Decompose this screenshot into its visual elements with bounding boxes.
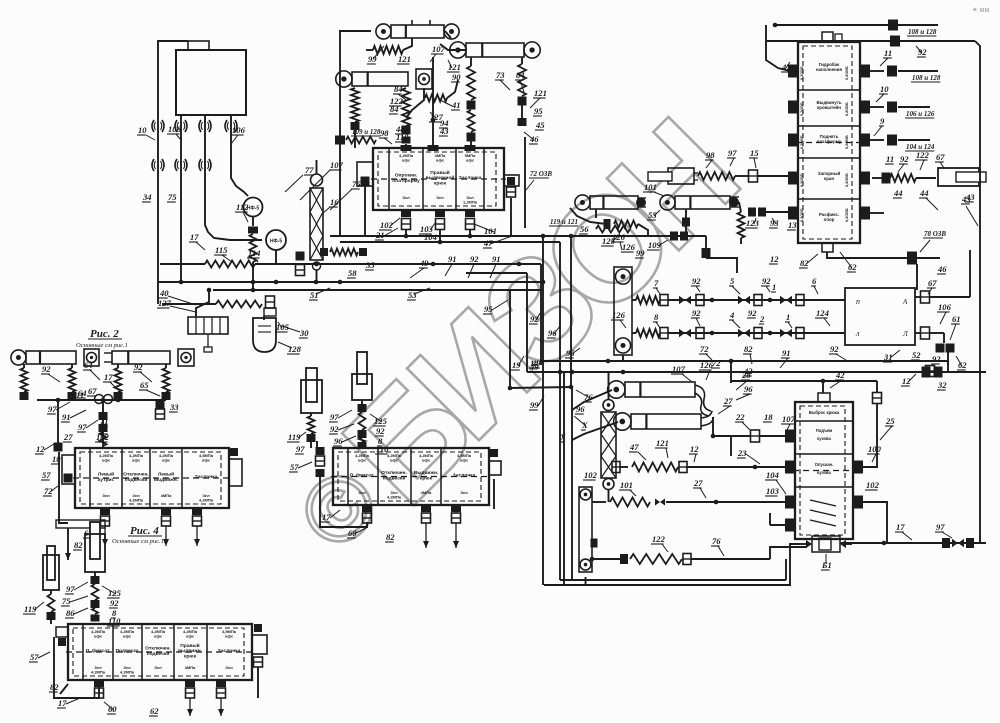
label 57d — [289, 462, 312, 472]
svg-text:91: 91 — [782, 348, 791, 358]
svg-text:102: 102 — [584, 470, 598, 480]
wire C v103 — [99, 400, 108, 448]
spring MR top — [632, 295, 668, 306]
svg-text:67: 67 — [936, 152, 945, 162]
svg-text:42: 42 — [743, 366, 753, 376]
port F right1 — [853, 461, 863, 474]
svg-text:73: 73 — [496, 70, 505, 80]
label Xg — [559, 432, 566, 442]
wire B left drop — [766, 25, 790, 71]
wire bus y264 — [160, 261, 335, 268]
valve MR b2a — [679, 328, 704, 339]
svg-text:126: 126 — [622, 242, 636, 252]
port B right row1 — [860, 65, 870, 78]
wire M drop x706 — [702, 236, 738, 273]
svg-text:44: 44 — [893, 188, 903, 198]
label 35b — [365, 260, 375, 270]
svg-text:9: 9 — [880, 116, 885, 126]
port A top3 — [465, 145, 476, 151]
svg-text:Левый: Левый — [98, 470, 114, 477]
svg-text:105: 105 — [276, 322, 290, 332]
label 92f — [109, 598, 119, 608]
svg-text:93: 93 — [770, 218, 779, 228]
svg-text:12: 12 — [770, 254, 779, 264]
wire A right tab drop — [510, 198, 512, 236]
label 108-128 r3 — [905, 143, 935, 151]
svg-text:75: 75 — [62, 596, 71, 606]
svg-text:62: 62 — [150, 706, 159, 716]
label 75f — [61, 596, 88, 606]
svg-text:53: 53 — [408, 290, 417, 300]
spring A h1 — [366, 38, 412, 54]
label 128 — [278, 342, 302, 354]
svg-text:97: 97 — [936, 522, 945, 532]
wire x948 join — [947, 361, 949, 372]
cylinder A2 — [450, 42, 540, 58]
label 8d — [377, 436, 383, 446]
wire bus y361 — [541, 359, 948, 364]
label 16 — [322, 197, 339, 214]
svg-text:97: 97 — [296, 444, 305, 454]
svg-text:65: 65 — [140, 380, 149, 390]
wire drop manifold — [196, 288, 211, 317]
label 82c — [73, 540, 83, 550]
label 17d — [321, 510, 340, 522]
svg-text:97: 97 — [66, 584, 75, 594]
fit mid 1 — [296, 252, 305, 276]
svg-text:офс: офс — [436, 158, 445, 163]
svg-text:92: 92 — [376, 426, 385, 436]
label 94 — [439, 118, 449, 128]
port B right row2 — [860, 101, 870, 114]
svg-text:82: 82 — [386, 532, 395, 542]
label 99 — [367, 46, 384, 64]
label 107a — [300, 160, 344, 200]
label 92r3 — [691, 308, 701, 326]
svg-text:✴ мм: ✴ мм — [972, 6, 990, 14]
label 7r — [653, 278, 660, 294]
spring MR bot — [632, 328, 668, 339]
label 11c — [75, 390, 84, 400]
svg-text:77: 77 — [305, 165, 314, 175]
label 67d — [83, 528, 100, 538]
svg-text:А: А — [902, 298, 908, 306]
svg-text:61: 61 — [952, 314, 961, 324]
svg-text:97: 97 — [78, 422, 87, 432]
breather B4 — [225, 120, 237, 132]
svg-text:Зел: Зел — [402, 195, 410, 200]
label 121c — [530, 88, 547, 108]
label 27g — [693, 478, 706, 498]
label 56m — [579, 224, 589, 234]
svg-text:Зел: Зел — [460, 490, 468, 495]
label 65c — [139, 380, 160, 396]
cylinder E2 — [43, 546, 59, 590]
label 99m — [635, 248, 645, 258]
spring M lower — [614, 221, 648, 237]
svg-text:25: 25 — [885, 416, 895, 426]
svg-text:8: 8 — [654, 312, 659, 322]
cylinder A3 — [336, 69, 432, 89]
label 86f — [65, 608, 88, 618]
label 10r — [876, 84, 889, 102]
svg-text:17: 17 — [58, 698, 67, 708]
label 108-128 t — [907, 28, 937, 36]
svg-text:4,2МПа: 4,2МПа — [387, 495, 402, 500]
svg-text:92: 92 — [470, 254, 479, 264]
wire C drain box — [56, 520, 105, 528]
svg-text:0,2ОВБ: 0,2ОВБ — [800, 208, 804, 222]
svg-text:96: 96 — [576, 404, 585, 414]
label 97c — [47, 402, 70, 414]
label 119-121 — [549, 218, 578, 226]
wire A c2 stem — [440, 31, 466, 50]
svg-text:офс: офс — [390, 458, 399, 463]
svg-text:Отключен.: Отключен. — [381, 470, 407, 476]
svg-text:5: 5 — [730, 276, 735, 286]
svg-text:выдвижной: выдвижной — [426, 174, 455, 181]
svg-text:92: 92 — [830, 344, 839, 354]
label 46r — [937, 264, 947, 274]
wire A right v525 — [524, 137, 526, 228]
svg-text:12: 12 — [902, 376, 911, 386]
label 1r — [771, 282, 776, 292]
label 31r — [883, 350, 900, 362]
wire F y547 right — [840, 541, 986, 546]
label 45 — [535, 120, 545, 130]
svg-text:Основные см рис.12: Основные см рис.12 — [112, 538, 168, 545]
svg-text:110: 110 — [396, 132, 409, 142]
wire B top y41 — [766, 36, 975, 47]
port E bot3 — [216, 679, 226, 716]
svg-text:4МПа: 4МПа — [161, 493, 172, 498]
label 104f — [765, 470, 786, 494]
label 42g — [743, 366, 753, 376]
svg-text:офс: офс — [402, 158, 411, 163]
svg-text:109 и 128: 109 и 128 — [352, 128, 381, 136]
svg-text:НФ-5: НФ-5 — [270, 239, 283, 245]
label 61r — [950, 314, 961, 340]
svg-text:115: 115 — [215, 245, 228, 255]
spring C s3 — [114, 364, 123, 400]
label 92r4 — [747, 308, 757, 318]
valve block D — [331, 448, 491, 505]
label 5r — [729, 276, 740, 294]
wire F right1 up — [863, 381, 882, 467]
svg-text:121: 121 — [534, 88, 547, 98]
wire v560 — [559, 242, 561, 580]
label 102a — [379, 218, 400, 230]
svg-text:4МПа: 4МПа — [185, 665, 196, 670]
wire A x433 — [431, 57, 436, 148]
svg-text:18: 18 — [764, 412, 773, 422]
svg-text:30: 30 — [299, 328, 309, 338]
label 82d — [385, 532, 395, 542]
spring E s2 — [91, 572, 100, 622]
wire C v58 — [54, 400, 63, 452]
label 97m — [727, 148, 737, 166]
svg-text:наполнения: наполнения — [816, 67, 843, 72]
svg-text:42: 42 — [835, 370, 845, 380]
label 72f — [711, 358, 721, 368]
wire tank pipe 2 — [205, 115, 262, 240]
svg-text:99: 99 — [636, 248, 645, 258]
label 67r — [927, 278, 937, 294]
label 19v — [511, 356, 524, 370]
svg-text:14: 14 — [530, 358, 539, 368]
wire bus y282 — [158, 280, 543, 285]
wire v510 — [508, 290, 513, 390]
svg-text:офс: офс — [132, 458, 141, 463]
valve block E — [66, 624, 254, 680]
svg-text:82: 82 — [74, 540, 83, 550]
label 126m — [621, 242, 636, 252]
label 92d — [329, 424, 354, 434]
svg-text:17: 17 — [190, 232, 199, 242]
block B port texts — [800, 66, 849, 222]
valve MR b1c — [780, 295, 804, 306]
spring F r1 — [612, 462, 787, 473]
svg-text:15: 15 — [750, 148, 759, 158]
port F left4 — [770, 513, 795, 532]
valve E left box — [56, 627, 68, 646]
svg-text:Заслонка: Заслонка — [195, 474, 218, 480]
label 62b — [840, 252, 857, 272]
svg-text:47: 47 — [629, 442, 639, 452]
label 108-128 r2 — [905, 110, 935, 118]
breather B3 — [199, 120, 211, 132]
label 108-128a — [335, 128, 381, 145]
fit MR right1 — [915, 291, 970, 303]
label 8f — [111, 608, 117, 618]
svg-text:Выдвижн.: Выдвижн. — [414, 470, 439, 476]
label 95v — [483, 300, 508, 314]
label 97f — [65, 582, 88, 594]
valve C right tab — [229, 448, 242, 486]
block F texts — [809, 410, 840, 526]
valve E right tab — [252, 624, 267, 698]
label 75b — [167, 192, 177, 202]
svg-text:46: 46 — [937, 264, 947, 274]
label 33c — [169, 402, 179, 412]
label 11s — [885, 154, 894, 164]
wire M2 drop — [682, 209, 690, 232]
label 15m — [749, 148, 759, 168]
svg-text:107: 107 — [330, 160, 344, 170]
svg-text:57: 57 — [30, 652, 39, 662]
label 97d — [329, 410, 352, 422]
wire v543 — [541, 236, 546, 585]
label 92d2 — [375, 426, 385, 436]
wire F right2 down — [863, 502, 887, 543]
wire pump1 to spring — [248, 216, 258, 234]
wire bus y264b — [335, 262, 541, 267]
wire pipe1 join — [180, 264, 182, 282]
svg-text:127: 127 — [158, 298, 172, 308]
svg-text:102: 102 — [96, 432, 110, 442]
label 119f — [23, 602, 44, 614]
svg-text:п: п — [856, 297, 860, 306]
diag M1 eye — [570, 208, 606, 224]
label 110f — [107, 616, 121, 626]
svg-text:Рис. 2: Рис. 2 — [90, 328, 119, 340]
label 12q — [901, 374, 916, 386]
svg-text:л: л — [855, 329, 860, 338]
label 60e — [104, 702, 117, 714]
svg-text:4,2МПа: 4,2МПа — [199, 498, 214, 503]
block B cap — [822, 32, 842, 42]
svg-text:96: 96 — [744, 384, 753, 394]
svg-text:92: 92 — [110, 598, 119, 608]
svg-text:19: 19 — [512, 360, 521, 370]
wire v541 — [540, 264, 542, 365]
svg-text:92: 92 — [762, 276, 771, 286]
label 103a — [419, 222, 436, 234]
label 57e — [29, 652, 50, 662]
label 62e — [149, 706, 159, 716]
label 67c — [87, 386, 97, 396]
label 82q — [743, 344, 753, 364]
svg-text:75: 75 — [168, 192, 177, 202]
port B left row4 — [788, 172, 798, 185]
svg-text:Правый: Правый — [430, 169, 449, 176]
label 40c — [159, 288, 196, 305]
cylinder M1 — [575, 195, 646, 210]
svg-text:офс: офс — [102, 458, 111, 463]
svg-text:123: 123 — [746, 218, 760, 228]
svg-text:40: 40 — [159, 288, 169, 298]
label 115 — [214, 245, 232, 262]
svg-text:Опускан.: Опускан. — [815, 462, 833, 467]
svg-text:92: 92 — [530, 314, 539, 324]
label 72c — [43, 486, 58, 496]
label 64c2 — [77, 388, 87, 398]
label 77 — [285, 165, 314, 192]
label 92c2 — [133, 362, 152, 382]
svg-text:офс: офс — [94, 634, 103, 639]
svg-text:91: 91 — [448, 254, 457, 264]
filter fitting — [266, 296, 275, 308]
label 108-128 r1 — [911, 74, 941, 82]
label 49q — [531, 358, 541, 368]
svg-text:72: 72 — [712, 358, 721, 368]
watermark — [279, 6, 989, 570]
svg-text:44: 44 — [919, 188, 929, 198]
svg-text:108: 108 — [168, 124, 182, 134]
label 125d — [370, 414, 388, 426]
svg-text:27: 27 — [693, 478, 703, 488]
svg-text:97: 97 — [48, 404, 57, 414]
svg-text:90: 90 — [452, 72, 461, 82]
svg-text:124: 124 — [816, 308, 830, 318]
svg-text:10: 10 — [138, 125, 147, 135]
svg-text:0,2ОВБ: 0,2ОВБ — [845, 208, 849, 222]
cylinder C2 — [104, 349, 194, 366]
svg-text:Х: Х — [559, 432, 566, 442]
label 95c — [533, 106, 543, 116]
label 43b — [439, 126, 449, 136]
spring D s2 — [358, 400, 367, 448]
cylinder E1 — [85, 522, 105, 572]
pump NF-1 — [244, 198, 263, 217]
label 91q — [780, 348, 791, 368]
label 97k — [77, 420, 98, 432]
svg-text:67: 67 — [88, 386, 97, 396]
label 17c — [103, 372, 118, 390]
wire y387 link — [510, 387, 571, 388]
svg-text:107: 107 — [782, 414, 796, 424]
label 25f — [880, 416, 895, 440]
port B right row4 — [860, 172, 870, 185]
breather B6 — [175, 159, 187, 171]
wire tank pipe 1 — [180, 115, 182, 264]
port D bot2 — [421, 504, 431, 548]
label 126f — [699, 360, 714, 380]
svg-text:92: 92 — [900, 154, 909, 164]
svg-text:108 и 128: 108 и 128 — [908, 28, 937, 36]
svg-text:Выброс крюка: Выброс крюка — [809, 410, 840, 415]
svg-text:офс: офс — [162, 458, 171, 463]
label 84a — [393, 84, 406, 100]
valve MR b2c — [780, 328, 804, 339]
svg-text:офс: офс — [460, 458, 469, 463]
label 43r — [961, 194, 978, 226]
svg-text:крюк: крюк — [434, 182, 447, 187]
label 121a — [397, 54, 411, 64]
cylinder D2 — [352, 352, 372, 400]
label 9r — [874, 116, 885, 136]
label 101m — [643, 182, 664, 196]
svg-text:Основные см рис.1: Основные см рис.1 — [76, 342, 128, 349]
svg-text:98: 98 — [706, 150, 715, 160]
svg-text:92: 92 — [692, 276, 701, 286]
svg-text:98: 98 — [380, 128, 389, 138]
svg-text:92: 92 — [932, 354, 941, 364]
spring A s4 — [518, 57, 527, 126]
wire A left tab drop — [364, 186, 366, 236]
label 6r — [811, 276, 818, 294]
svg-text:11: 11 — [76, 390, 84, 400]
label 78 OZV — [920, 230, 946, 252]
svg-text:45: 45 — [535, 120, 545, 130]
wire v564 — [563, 372, 565, 585]
svg-text:95: 95 — [534, 106, 543, 116]
label 92r2 — [761, 276, 771, 292]
label 98m — [705, 150, 715, 168]
svg-text:82: 82 — [50, 682, 59, 692]
svg-text:86: 86 — [66, 608, 75, 618]
svg-text:опор: опор — [824, 217, 835, 222]
svg-text:4,2МПа: 4,2МПа — [91, 670, 106, 675]
wire B top y25 — [773, 20, 938, 31]
wire B bot drop — [916, 264, 918, 290]
wire B r4 — [872, 173, 891, 184]
svg-text:104: 104 — [424, 232, 438, 242]
valve F y547 — [942, 538, 974, 548]
valve C left tab — [62, 455, 75, 484]
valve MR b2b — [738, 328, 762, 339]
label 64c — [83, 360, 100, 380]
label 42f — [830, 370, 845, 388]
svg-text:106: 106 — [938, 302, 952, 312]
label 124r — [815, 308, 830, 326]
label 21 — [375, 228, 398, 240]
svg-text:17: 17 — [104, 372, 113, 382]
wire C bot diag — [65, 528, 71, 560]
cylinder M3 — [648, 168, 698, 184]
wire M lower run — [648, 232, 706, 241]
svg-text:103: 103 — [766, 486, 780, 496]
